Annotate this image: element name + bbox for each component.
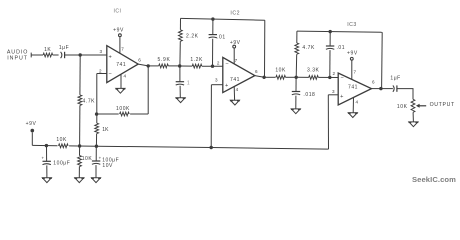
resistor R8 10K [276, 75, 286, 79]
node rail cap1 junction [45, 144, 48, 147]
svg-text:4: 4 [123, 74, 126, 79]
node top wire junction [211, 17, 214, 20]
wire R4 to rail [95, 134, 97, 147]
node top wire 3 junction [329, 30, 332, 33]
wire R10 to U3 pin2 [318, 76, 338, 78]
op-amp U3 741 [338, 73, 371, 105]
capacitor C6 1uF [396, 85, 398, 91]
svg-text:4: 4 [236, 87, 239, 92]
svg-text:.018: .018 [303, 92, 315, 98]
svg-text:741: 741 [230, 77, 240, 83]
capacitor C3 .01 [209, 34, 217, 36]
wire pin3 U3 to rail [327, 95, 329, 149]
wire input to R1 [31, 54, 43, 56]
capacitor C4 .018 [292, 91, 300, 93]
resistor R1 1K [43, 53, 53, 57]
resistor R4 1K [95, 123, 99, 134]
wire R11 to ground [412, 112, 414, 122]
node J5 junction [379, 87, 382, 90]
ground C4 [291, 109, 300, 114]
wire J5 up to top wire [381, 32, 384, 88]
wire node A1 down [79, 55, 81, 95]
ground R11 [409, 122, 418, 127]
svg-text:10K: 10K [275, 68, 286, 74]
svg-text:IC2: IC2 [230, 10, 240, 16]
resistor R9 4.7K [295, 43, 299, 54]
wire cap2 from rail [95, 146, 97, 161]
svg-text:+9V: +9V [230, 40, 241, 46]
svg-text:.01: .01 [217, 34, 226, 40]
wire C4 to ground [295, 96, 297, 109]
svg-text:IC3: IC3 [347, 22, 357, 28]
svg-text:+: + [225, 83, 228, 89]
ground U3 [348, 113, 357, 118]
svg-text:3.3K: 3.3K [307, 67, 320, 73]
svg-text:3: 3 [99, 49, 102, 54]
op-amp U2 741 [223, 57, 255, 92]
svg-text:+: + [109, 55, 112, 61]
ground U1 [116, 88, 125, 93]
wire rail left [32, 144, 57, 146]
wire pin2 U1 [97, 73, 107, 75]
svg-text:1: 1 [187, 81, 190, 87]
svg-text:100K: 100K [116, 106, 130, 112]
node J3 junction [95, 112, 98, 115]
ground C7 [42, 178, 51, 183]
svg-text:5.9K: 5.9K [157, 57, 170, 63]
svg-text:6: 6 [255, 69, 258, 74]
wire C1 to node A1 [65, 54, 107, 56]
wire IC2 top [181, 18, 265, 20]
svg-text:6: 6 [372, 79, 375, 84]
resistor R3 100K [120, 112, 130, 116]
wire +9V down [31, 133, 33, 146]
wire C2 to ground [179, 86, 181, 98]
svg-text:741: 741 [116, 62, 126, 68]
ground R13 [75, 178, 84, 183]
resistor R13 10K [78, 156, 82, 167]
node rail cap8 junction [95, 145, 98, 148]
wire IC3 top [297, 31, 382, 32]
svg-text:4: 4 [355, 99, 358, 104]
node AUDIO INPUT terminal [30, 53, 32, 58]
node rail R13 junction [78, 144, 81, 147]
svg-text:3: 3 [332, 89, 335, 94]
wire C6 to corner [397, 89, 413, 100]
wire rail right [96, 146, 328, 149]
svg-text:+9V: +9V [347, 50, 358, 56]
node rail pin3 U2 junction [210, 146, 213, 149]
wire U3 out [372, 88, 381, 90]
svg-text:+9V: +9V [113, 28, 124, 34]
wire cap1 to ground [46, 165, 48, 177]
resistor R2 4.7K [78, 95, 82, 106]
wire J3 to R3 [97, 113, 119, 115]
wire J4 up to top wire [264, 20, 266, 77]
wire pin4 U3 [352, 98, 354, 113]
wire top3 to C5 [329, 32, 331, 46]
wire node B to R10 [296, 76, 309, 78]
svg-text:741: 741 [348, 85, 358, 91]
svg-text:1K: 1K [102, 127, 109, 133]
wire cap2 to ground [95, 165, 97, 178]
node B junction [295, 76, 298, 79]
svg-text:2: 2 [217, 61, 220, 66]
svg-text:1μF: 1μF [390, 75, 400, 81]
svg-text:2: 2 [99, 68, 102, 73]
resistor R5 5.9K [159, 64, 169, 68]
resistor R10 3.3K [309, 76, 319, 80]
wire U2 out [255, 76, 264, 78]
ground C2 [176, 98, 185, 103]
wire pin3 U2 [211, 84, 222, 86]
wire R2 to rail [79, 105, 81, 145]
svg-text:2.2K: 2.2K [186, 33, 199, 39]
svg-text:7: 7 [235, 58, 238, 63]
svg-text:4.7K: 4.7K [83, 98, 96, 104]
node A junction [178, 64, 181, 67]
svg-text:6: 6 [138, 58, 141, 63]
svg-text:10K: 10K [397, 104, 408, 110]
wire R1 to C1 [53, 54, 59, 56]
svg-text:AUDIO: AUDIO [7, 49, 29, 55]
wire J3 to R4 [96, 114, 98, 123]
wire R13 to ground [78, 167, 80, 178]
wire C5 to pin2 node [329, 50, 331, 77]
capacitor C1 1uF [64, 52, 66, 58]
wire node B up [295, 54, 298, 77]
capacitor C7 100uF [43, 160, 51, 162]
capacitor C5 .01 [326, 45, 334, 47]
wire R6 to top wire [179, 18, 181, 29]
wire R8 to node B [286, 76, 297, 78]
svg-text:1.2K: 1.2K [190, 57, 203, 63]
wire pin3 U3 [328, 94, 338, 96]
wire R7 to U2 pin2 [202, 65, 223, 67]
svg-text:10K: 10K [56, 137, 67, 143]
node pin2 U2 junction [211, 65, 214, 68]
svg-text:.01: .01 [336, 45, 345, 51]
svg-text:10K: 10K [82, 156, 93, 162]
wire R9 to top wire [296, 31, 298, 43]
node pin2 U3 junction [328, 76, 331, 79]
wire node A up [179, 41, 181, 66]
svg-text:1K: 1K [44, 47, 51, 53]
wire pin4 U2 [233, 87, 235, 101]
potentiometer R11 10K [411, 99, 415, 112]
wire pin4 U1 [120, 74, 122, 88]
svg-text:−: − [109, 71, 112, 77]
wire cap1 from rail [46, 146, 48, 162]
capacitor C2 .1 [176, 81, 184, 83]
wiper arrow R11 [416, 104, 420, 108]
wire C3 to pin2 node [212, 39, 214, 66]
svg-text:ICI: ICI [114, 8, 122, 14]
svg-text:−: − [341, 75, 344, 81]
svg-text:100μF: 100μF [53, 161, 70, 167]
svg-text:7: 7 [121, 46, 124, 51]
ground U2 [230, 100, 239, 105]
node J4 junction [262, 76, 265, 79]
node A1 junction [79, 53, 82, 56]
svg-text:3: 3 [215, 77, 218, 82]
svg-text:7: 7 [353, 69, 356, 74]
wire node B down [295, 77, 297, 91]
wire pin3 U2 to rail [210, 85, 212, 148]
svg-text:2: 2 [332, 71, 335, 76]
wire pin2 down to node J3 [96, 74, 98, 114]
wire R13 from rail [79, 146, 81, 156]
svg-text:10V: 10V [102, 163, 113, 169]
svg-text:4.7K: 4.7K [302, 45, 315, 51]
wire top to C3 [212, 19, 214, 34]
svg-text:INPUT: INPUT [7, 56, 28, 62]
wire rail mid [69, 145, 96, 147]
svg-text:1μF: 1μF [59, 45, 69, 51]
svg-text:+: + [41, 156, 44, 161]
op-amp U1 741 [107, 46, 138, 83]
wire R3 to J2 [130, 113, 148, 115]
resistor R6 2.2K [179, 30, 183, 42]
resistor R12 10K [59, 144, 69, 148]
wire node A down [179, 66, 181, 82]
wire U1 out [138, 64, 148, 66]
svg-text:+9V: +9V [26, 121, 37, 127]
resistor R7 1.2K [192, 64, 202, 68]
capacitor C8 100uF 10V [92, 160, 100, 162]
svg-text:OUTPUT: OUTPUT [430, 102, 455, 108]
svg-text:SeekIC.com: SeekIC.com [412, 175, 456, 184]
svg-text:−: − [225, 61, 228, 67]
svg-text:+: + [340, 94, 343, 100]
wire R5 to node A [168, 65, 179, 67]
ground C8 [92, 178, 101, 183]
node J2 junction [147, 64, 150, 67]
wire node A to R7 [180, 65, 193, 67]
